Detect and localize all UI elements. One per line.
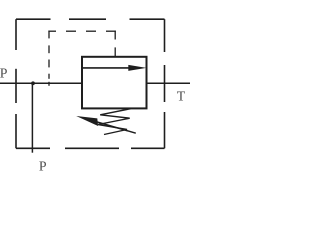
- junction dot on P line: [31, 81, 35, 85]
- svg-text:T: T: [177, 89, 186, 104]
- outer dashed envelope bottom edge: [16, 147, 165, 149]
- pilot line top horizontal (dashed, y=31.2): [48, 30, 115, 32]
- outer dashed envelope left edge: [15, 19, 17, 148]
- flow path arrow inside valve: [83, 65, 147, 71]
- port P line (left): [0, 82, 82, 84]
- svg-text:P: P: [0, 65, 8, 80]
- pilot line left vertical (dashed, x=49): [48, 31, 50, 86]
- port T line (right): [147, 82, 191, 84]
- spring (zigzag): [98, 109, 131, 135]
- pilot line right vertical (dashed, x=115.2): [114, 31, 116, 58]
- valve body V1 (square): [82, 57, 147, 109]
- outer dashed envelope top edge: [16, 18, 165, 20]
- adjustment arrow across spring: [76, 116, 136, 133]
- outer dashed envelope right edge: [164, 19, 166, 148]
- P branch line to bottom port: [31, 83, 33, 152]
- svg-text:P: P: [39, 158, 47, 173]
